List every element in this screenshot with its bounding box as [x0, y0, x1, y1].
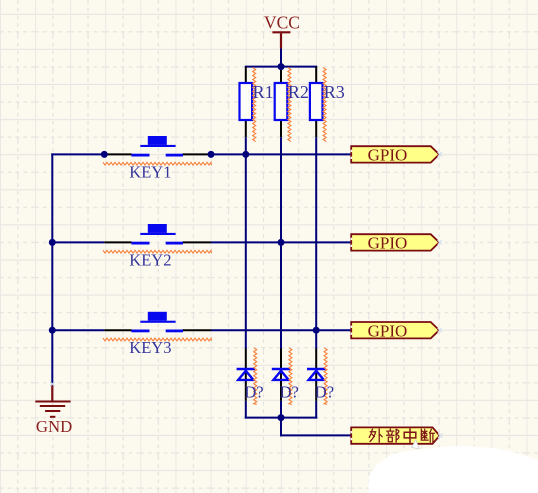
- svg-text:GND: GND: [36, 417, 72, 436]
- svg-text:R2: R2: [288, 82, 309, 102]
- svg-text:D?: D?: [244, 383, 263, 402]
- svg-text:R1: R1: [253, 82, 274, 102]
- svg-text:R3: R3: [324, 82, 345, 102]
- svg-text:KEY1: KEY1: [129, 162, 171, 181]
- svg-text:D?: D?: [280, 383, 299, 402]
- svg-text:VCC: VCC: [264, 12, 300, 32]
- svg-text:D?: D?: [315, 383, 334, 402]
- svg-text:GPIO: GPIO: [368, 146, 408, 165]
- svg-text:KEY3: KEY3: [129, 338, 171, 357]
- svg-text:GPIO: GPIO: [368, 321, 408, 340]
- svg-text:KEY2: KEY2: [129, 250, 171, 269]
- svg-text:GPIO: GPIO: [368, 234, 408, 253]
